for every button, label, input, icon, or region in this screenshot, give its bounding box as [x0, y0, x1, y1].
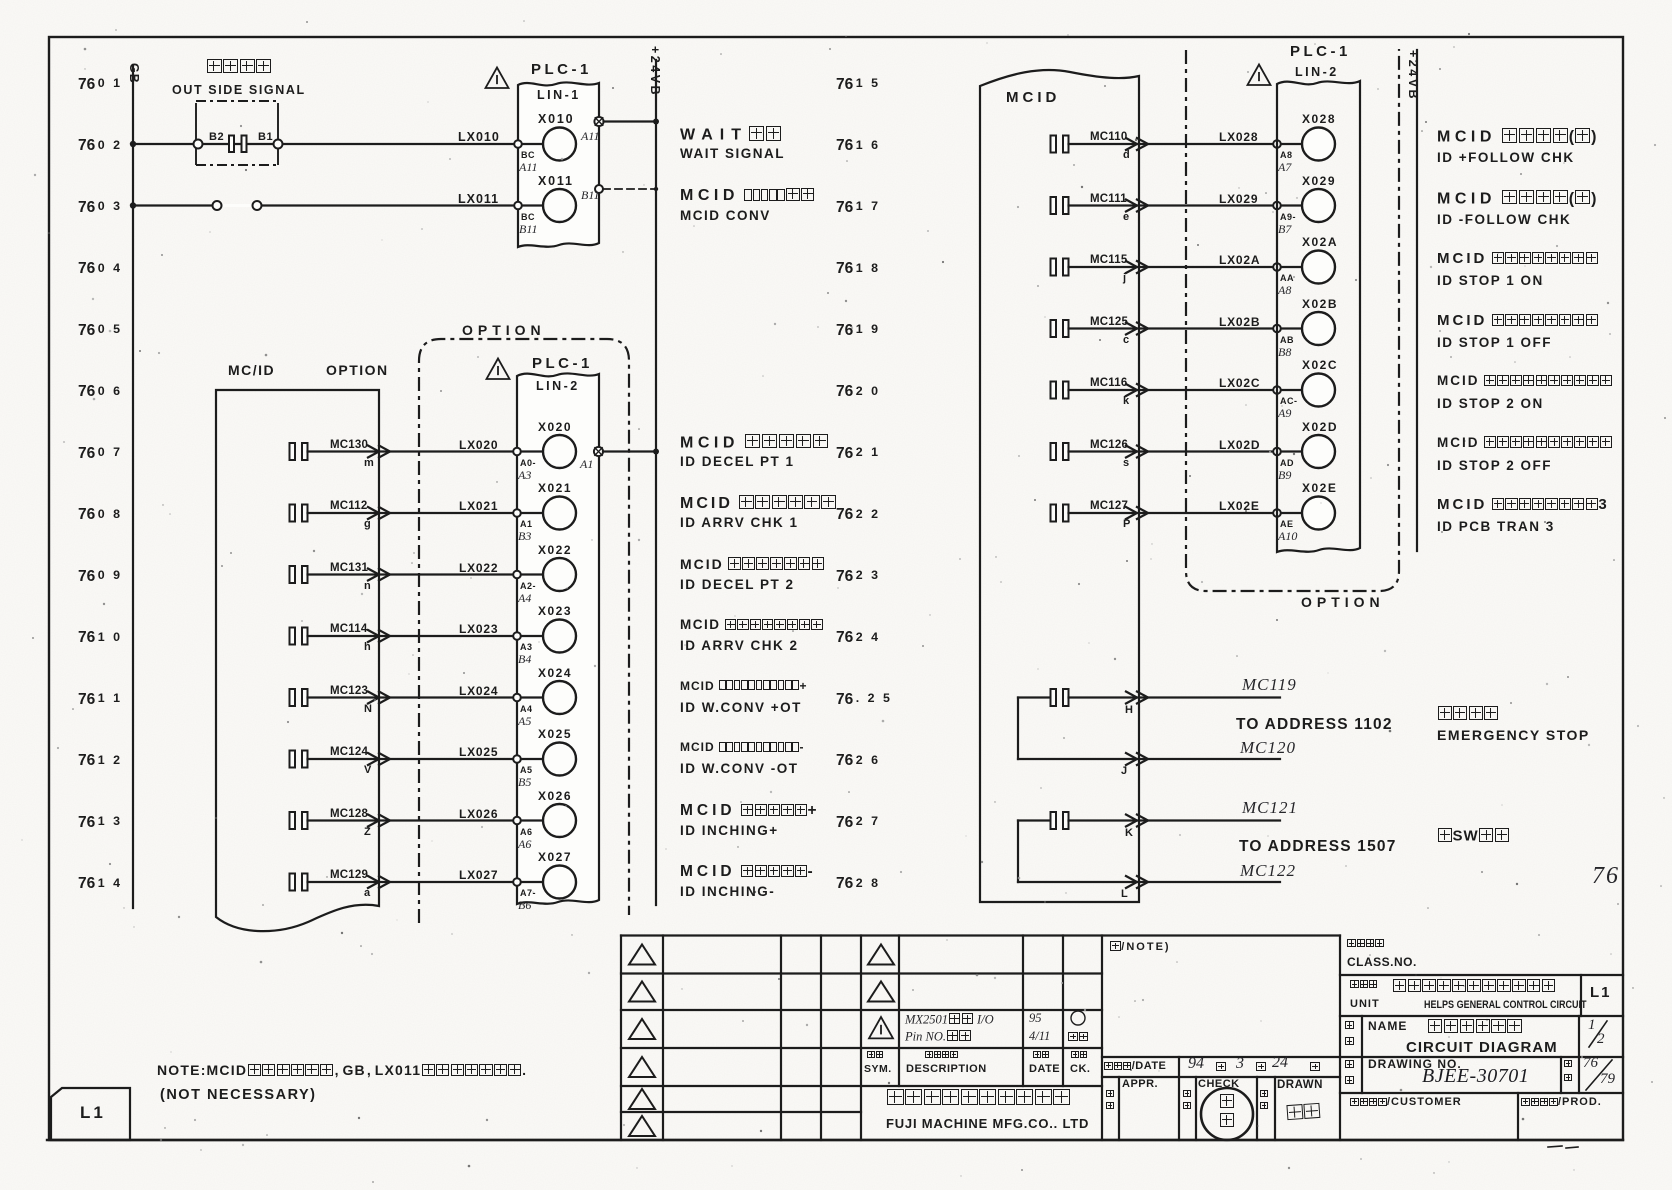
pin AC- / A9 — [1280, 397, 1298, 406]
PLC-1 LIN-2 module box (left) — [517, 373, 599, 904]
PLC-1 LIN-2 module box (right) — [1277, 81, 1360, 552]
handwritten A11 right of X010 — [581, 130, 599, 143]
pin A6 / A6 — [520, 828, 533, 837]
label pair rung 7610 — [680, 618, 823, 632]
label X010 — [538, 113, 574, 126]
label MC124 — [330, 746, 368, 758]
contact MC110 — [1051, 136, 1057, 153]
label X02D — [1302, 421, 1338, 434]
label MC112 — [330, 500, 367, 512]
contact MC130 — [290, 443, 296, 460]
terminal LX024 — [513, 694, 521, 702]
label pair rung 7614 — [680, 864, 813, 880]
label MCID — [1006, 90, 1060, 106]
label X021 — [538, 482, 572, 495]
sym header row — [867, 1051, 883, 1060]
terminal LX029 — [1273, 202, 1281, 210]
contact MC129 — [290, 874, 296, 891]
label MC125 — [1090, 316, 1128, 328]
MCID unit box — [980, 70, 1139, 902]
label X026 — [538, 790, 572, 803]
note text — [157, 1063, 527, 1078]
customer row — [1350, 1097, 1462, 1109]
input point X02D — [1302, 435, 1335, 468]
contact MC119 — [1051, 689, 1057, 706]
label MC116 — [1090, 377, 1127, 389]
wire MC123 to LX024 — [308, 696, 514, 698]
wire MC131 to LX022 — [308, 573, 514, 575]
label MC128 — [330, 808, 368, 820]
label pair rung 7617 — [1437, 251, 1598, 267]
wire rung 7603 — [133, 204, 518, 206]
MC/ID unit box — [216, 390, 379, 931]
label LX026 — [459, 808, 498, 821]
input point X021 — [543, 497, 576, 530]
pin AD / B9 — [1280, 459, 1294, 468]
label X028 — [1302, 113, 1336, 126]
input point X024 — [543, 681, 576, 714]
dashed wire to +24VB rail — [603, 188, 656, 190]
output terminal B11 (open) — [595, 185, 603, 193]
wire MC122 out — [1018, 881, 1280, 883]
contact MC115 — [1051, 259, 1057, 276]
label L — [1121, 889, 1128, 901]
wire rung 7602 — [133, 143, 518, 145]
terminal LX02D — [1273, 448, 1281, 456]
wire MC124 to LX025 — [308, 758, 514, 760]
label pair rung 7621 — [1437, 497, 1607, 513]
label 扉SW閉じ — [1437, 828, 1509, 844]
rung number column left — [78, 77, 122, 93]
label LX02A — [1219, 254, 1260, 267]
contact B1 (screw terminal) — [274, 140, 283, 149]
L1 sheet box — [51, 1088, 130, 1140]
handwritten drawn name — [1285, 1103, 1321, 1123]
wire MC129 to LX027 — [308, 881, 514, 883]
label LX02D — [1219, 439, 1260, 452]
label 外部信号 OUT SIDE SIGNAL — [206, 59, 272, 77]
pin A8 / A7 — [1280, 151, 1293, 160]
label LX023 — [459, 623, 498, 636]
label LX028 — [1219, 131, 1258, 144]
input point X028 — [1302, 128, 1335, 161]
PLC-1 LIN-1 module box — [518, 82, 599, 247]
terminal LX011 — [514, 202, 522, 210]
input point X010 — [518, 143, 543, 145]
revision warning triangle row3 — [869, 1017, 893, 1038]
pin A3 / B4 — [520, 643, 533, 652]
label LX022 — [459, 562, 498, 575]
label B1 — [258, 132, 273, 144]
wire MC119 out — [1069, 696, 1281, 698]
label MC129 — [330, 869, 368, 881]
warning triangle (LIN-2 right) — [1248, 65, 1271, 85]
label MC127 — [1090, 500, 1128, 512]
warning triangle (LIN-1) — [486, 68, 509, 88]
label H — [1125, 705, 1133, 717]
handwritten MC119 — [1242, 676, 1297, 694]
sheet fraction 1/2 — [1588, 1018, 1596, 1034]
label pair rung 7602 — [680, 126, 782, 144]
wire MC127 to LX02E — [1069, 512, 1274, 514]
label pair rung 7613 — [680, 803, 817, 819]
pin AA / A8 — [1280, 274, 1294, 283]
label pair rung 7603 — [680, 188, 815, 205]
label MC130 — [330, 439, 368, 451]
name row — [1345, 1021, 1354, 1031]
wire MC114 to LX023 — [308, 635, 514, 637]
label LX010 — [458, 131, 500, 144]
handwritten A1 — [580, 458, 593, 471]
label TO ADDRESS 1102 — [1236, 717, 1393, 733]
input point X02E — [1302, 497, 1335, 530]
pin A1 / B3 — [520, 520, 533, 529]
label X020 — [538, 421, 572, 434]
label X025 — [538, 728, 572, 741]
wire MC125 to LX02B — [1069, 327, 1274, 329]
label pair rung 7618 — [1437, 313, 1598, 329]
label pair rung 7620 — [1437, 436, 1612, 450]
label LX02B — [1219, 316, 1260, 329]
label B2 — [209, 132, 224, 144]
revision triangles — [629, 945, 655, 965]
input point X02A — [1302, 251, 1335, 284]
label MC111 — [1090, 193, 1127, 205]
terminal LX022 — [513, 571, 521, 579]
left bus rail GB — [132, 65, 134, 908]
label LX020 — [459, 439, 498, 452]
label LX027 — [459, 869, 498, 882]
contact plug B2/B1 — [229, 136, 234, 153]
unit row — [1350, 980, 1378, 990]
label X023 — [538, 605, 572, 618]
open contact terminals rung 7603 — [222, 204, 253, 207]
contact MC116 — [1051, 382, 1057, 399]
label OPTION (left box) — [462, 323, 546, 338]
label PLC-1 LIN-2 (right) — [1290, 44, 1351, 60]
approval row — [1106, 1090, 1114, 1099]
contact B2 (screw terminal) — [194, 140, 203, 149]
label TO ADDRESS 1507 — [1239, 839, 1397, 855]
handwritten MC121 — [1242, 799, 1298, 817]
label LX011 — [458, 193, 499, 206]
pin BC / A11 (X010) — [521, 151, 535, 160]
label pair rung 7616 — [1437, 190, 1596, 208]
label MC123 — [330, 685, 368, 697]
pin A2- / A4 — [520, 582, 536, 591]
terminal LX020 — [513, 448, 521, 456]
label K — [1125, 828, 1133, 840]
label MC110 — [1090, 131, 1127, 143]
handwritten MC120 — [1240, 739, 1296, 757]
terminal LX027 — [513, 878, 521, 886]
input point X025 — [543, 743, 576, 776]
wire MC115 to LX02A — [1069, 266, 1274, 268]
wire X020 to +24VB rail — [603, 450, 656, 452]
drawing no row — [1345, 1060, 1354, 1070]
terminal LX023 — [513, 632, 521, 640]
warning triangle (LIN-2 left) — [487, 359, 510, 379]
terminal LX02A — [1273, 263, 1281, 271]
handwritten MC122 — [1240, 862, 1296, 880]
class no — [1347, 939, 1384, 949]
fuji machine title — [886, 1089, 1071, 1108]
wire MC120 out — [1018, 758, 1280, 760]
input point X023 — [543, 620, 576, 653]
input point X020 — [543, 435, 576, 468]
contact MC123 — [290, 689, 296, 706]
output terminal A1 (X020, crossed) — [594, 447, 603, 456]
input point X027 — [543, 866, 576, 899]
label LX024 — [459, 685, 498, 698]
label PLC-1 LIN-2 — [532, 356, 593, 372]
title block grid — [621, 934, 1340, 936]
label MC131 — [330, 562, 368, 574]
label pair rung 7612 — [680, 741, 803, 754]
contact MC114 — [290, 628, 296, 645]
pin AE / A10 — [1280, 520, 1294, 529]
label LX02E — [1219, 500, 1260, 513]
label PLC-1 LIN-1 — [531, 62, 592, 78]
input point X022 — [543, 558, 576, 591]
contact MC127 — [1051, 505, 1057, 522]
wire loop MC121/MC122 — [1017, 821, 1019, 883]
contact MC128 — [290, 812, 296, 829]
label X022 — [538, 544, 572, 557]
note header — [1110, 941, 1171, 954]
label L1 — [80, 1104, 106, 1122]
contact MC111 — [1051, 197, 1057, 214]
label X011 — [538, 175, 574, 188]
contact MC124 — [290, 751, 296, 768]
wire MC130 to LX020 — [308, 450, 514, 452]
contact MC125 — [1051, 320, 1057, 337]
OPTION dashed enclosure (left) — [419, 339, 629, 923]
pin BC / B11 (X011) — [521, 213, 535, 222]
label X027 — [538, 851, 572, 864]
contact MC131 — [290, 566, 296, 583]
label pair rung 7607 — [680, 434, 829, 452]
label X02A — [1302, 236, 1338, 249]
label MC115 — [1090, 254, 1127, 266]
wire MC112 to LX021 — [308, 512, 514, 514]
label pair rung 7608 — [680, 495, 837, 513]
label OPTION (right box) — [1301, 595, 1385, 610]
wire MC126 to LX02D — [1069, 450, 1274, 452]
handwritten 76 page mark — [1592, 864, 1620, 889]
pin A4 / A5 — [520, 705, 533, 714]
terminal LX02B — [1273, 325, 1281, 333]
label pair rung 7615 — [1437, 128, 1596, 146]
label MC/ID OPTION — [228, 363, 275, 378]
label pair rung 7611 — [680, 680, 806, 693]
OPTION dashed enclosure (right) — [1186, 49, 1399, 591]
wire MC111 to LX029 — [1069, 204, 1274, 206]
rung number column middle — [836, 77, 880, 93]
terminal LX02E — [1273, 509, 1281, 517]
terminal LX010 — [514, 140, 522, 148]
label pair rung 7619 — [1437, 374, 1612, 388]
label MC126 — [1090, 439, 1128, 451]
date row — [1104, 1061, 1166, 1073]
label X02B — [1302, 298, 1338, 311]
outside-signal dashed enclosure — [196, 101, 278, 165]
page fraction 76/79 — [1583, 1056, 1598, 1072]
+24VB power rail (right) — [1416, 50, 1418, 551]
label X029 — [1302, 175, 1336, 188]
terminal LX025 — [513, 755, 521, 763]
pin AB / B8 — [1280, 336, 1294, 345]
label LX025 — [459, 746, 498, 759]
pin A5 / B5 — [520, 766, 533, 775]
output terminal A11 (crossed) — [594, 117, 603, 126]
wire MC110 to LX028 — [1069, 143, 1274, 145]
handwritten B11 right of X011 — [581, 189, 599, 202]
revision row 3 entry — [905, 1013, 994, 1026]
input point X026 — [543, 804, 576, 837]
stray marks below title block — [1548, 1146, 1562, 1147]
wire MC116 to LX02C — [1069, 389, 1274, 391]
terminal LX026 — [513, 817, 521, 825]
label J — [1121, 766, 1127, 778]
label X02E — [1302, 482, 1337, 495]
label X024 — [538, 667, 572, 680]
+24VB power rail (left) — [655, 60, 657, 905]
input point X011 — [518, 204, 543, 206]
label 非常停止 EMERGENCY STOP — [1437, 706, 1499, 722]
wire MC121 out — [1069, 819, 1281, 821]
terminal LX028 — [1273, 140, 1281, 148]
label X02C — [1302, 359, 1338, 372]
label LX021 — [459, 500, 498, 513]
input point X029 — [1302, 189, 1335, 222]
wire loop MC119/MC120 — [1017, 698, 1019, 760]
label LX02C — [1219, 377, 1260, 390]
contact MC112 — [290, 505, 296, 522]
stamp 山本 — [1201, 1088, 1253, 1140]
label pair rung 7609 — [680, 557, 825, 572]
terminal LX021 — [513, 509, 521, 517]
contact MC121 — [1051, 812, 1057, 829]
label MC114 — [330, 623, 367, 635]
contact MC126 — [1051, 443, 1057, 460]
pin A9- / B7 — [1280, 213, 1296, 222]
terminal LX02C — [1273, 386, 1281, 394]
pin A0- / A3 — [520, 459, 536, 468]
pin A7- / B6 — [520, 889, 536, 898]
label LX029 — [1219, 193, 1258, 206]
input point X02B — [1302, 312, 1335, 345]
wire MC128 to LX026 — [308, 819, 514, 821]
wire to +24VB rail — [604, 120, 657, 122]
input point X02C — [1302, 374, 1335, 407]
